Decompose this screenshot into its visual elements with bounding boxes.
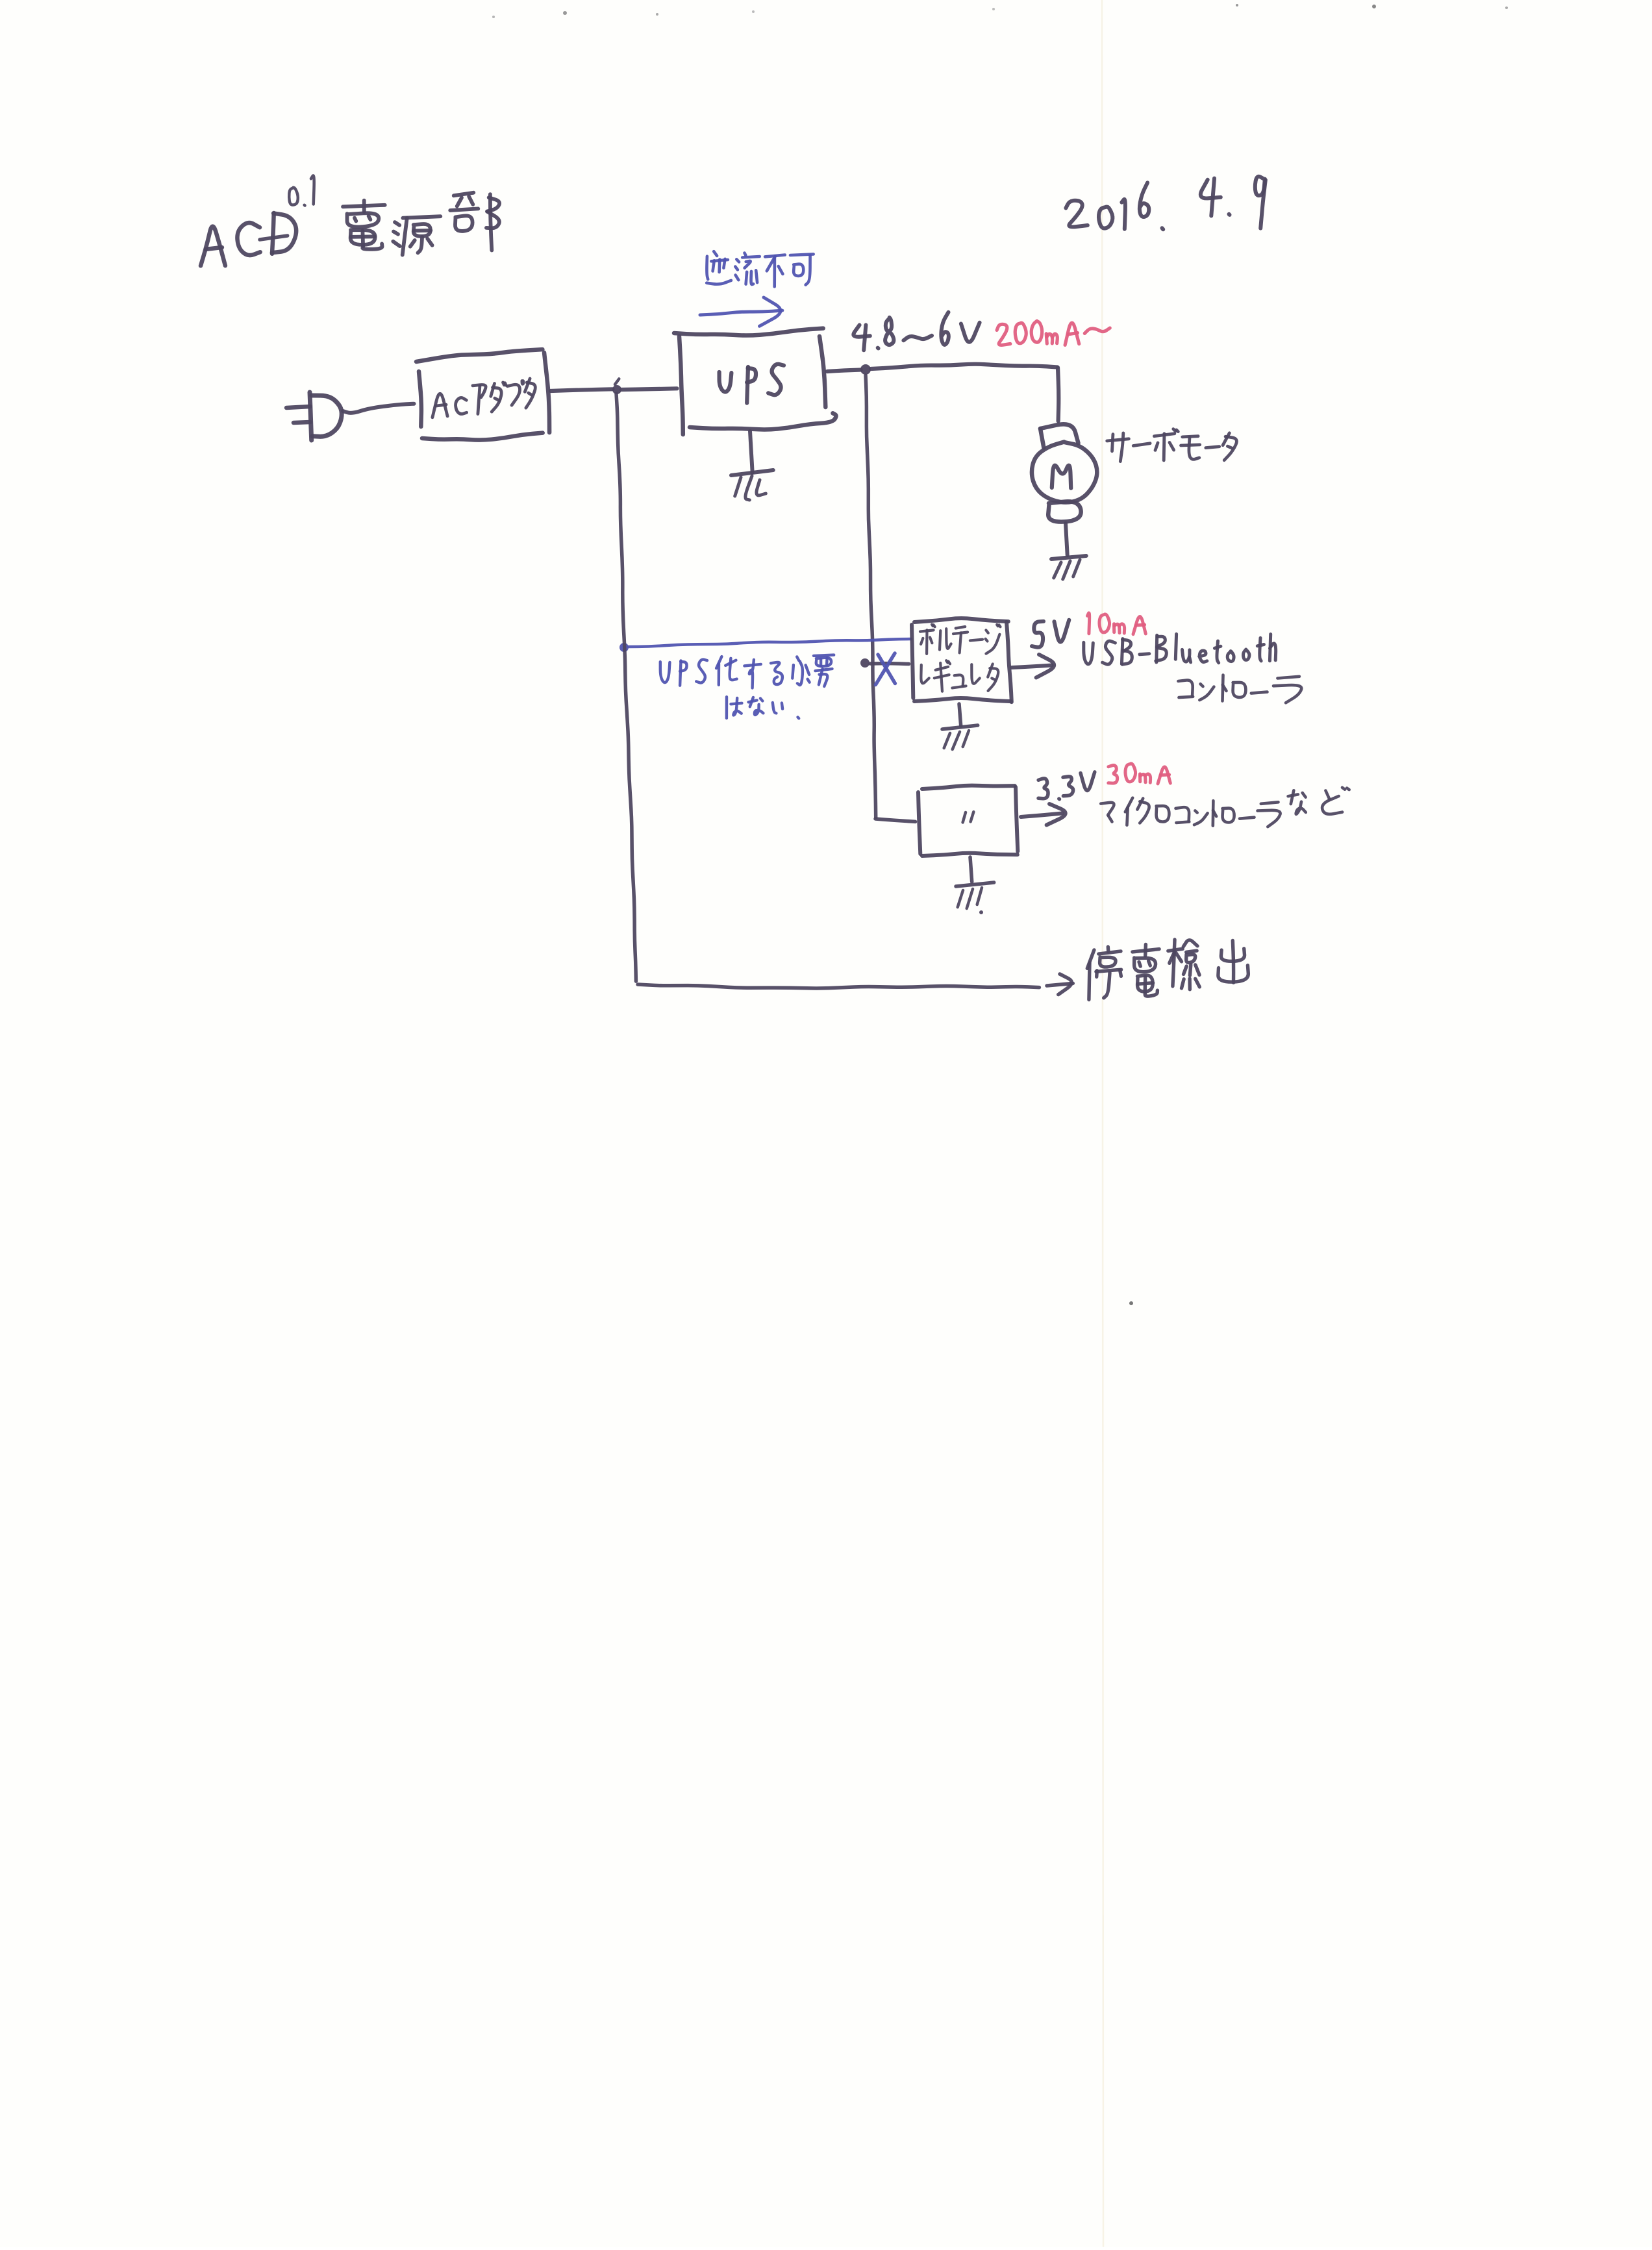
ground (U3) xyxy=(956,857,994,914)
label 200mA~ (pink) xyxy=(997,321,1110,345)
ac plug P1 xyxy=(286,392,342,440)
wire plug to AC adapter xyxy=(343,404,414,413)
wire AC adapter to node A xyxy=(551,389,613,391)
wire bottom run to detect arrow xyxy=(638,984,1039,988)
label ACアダプタ xyxy=(432,379,535,418)
label title 電源部 xyxy=(343,193,499,255)
label 停電検出 xyxy=(1087,940,1248,1000)
regulator U2 (voltage regulator) xyxy=(912,618,1012,702)
ground (U2) xyxy=(942,704,978,749)
arrow reverse-flow (blue) xyxy=(700,297,782,326)
wire node B down to 3.3V regulator xyxy=(866,375,916,821)
node B junction xyxy=(860,364,871,375)
label 10mA (pink) xyxy=(1088,613,1146,634)
note UPS化する必要はない (blue) xyxy=(660,655,834,719)
label 5V xyxy=(1032,620,1069,647)
wire UPS output to node B xyxy=(827,370,861,372)
label ボルテージレギュレタ xyxy=(920,625,1001,692)
label 3.3V xyxy=(1038,772,1095,799)
ground (UPS) xyxy=(731,431,773,500)
wire stub node C to 5V regulator (cancelled) xyxy=(870,662,909,666)
node D junction (blue) xyxy=(619,643,629,652)
label マイクロコントローラなど xyxy=(1101,788,1349,827)
label USB-Bluetooth コントローラ xyxy=(1084,634,1301,703)
label 4.8~6V xyxy=(853,312,979,351)
label 30mA (pink) xyxy=(1108,764,1171,784)
label ditto mark xyxy=(963,812,974,822)
wire blue bypass node A to 5V regulator xyxy=(629,639,911,647)
node A junction xyxy=(612,379,621,394)
label UPS xyxy=(720,364,784,403)
label title ACD 0.1 (revision) xyxy=(201,175,314,266)
arrow U3 output 3.3V xyxy=(1021,804,1066,825)
arrow 停電検出 xyxy=(1047,974,1073,995)
block UPS U1 xyxy=(674,329,836,434)
node C junction xyxy=(860,658,870,668)
wire motor to ground xyxy=(1066,523,1068,555)
motor M1 (servo) xyxy=(1032,424,1097,521)
arrow U2 output 5V xyxy=(1012,655,1054,678)
label date 2016.4.9 xyxy=(1066,177,1265,229)
block AC adapter xyxy=(416,349,549,440)
wire node A down (power fail sense) xyxy=(616,394,636,981)
cross-out X (blue) xyxy=(875,653,895,685)
ground (motor) xyxy=(1051,556,1086,579)
wire node B to servo motor xyxy=(871,364,1058,421)
regulator U3 (3.3V, ditto) xyxy=(918,786,1018,856)
label サーボモータ xyxy=(1107,429,1237,462)
note 逆流不可 (blue) xyxy=(707,251,814,286)
wire node A to UPS input xyxy=(621,388,677,390)
